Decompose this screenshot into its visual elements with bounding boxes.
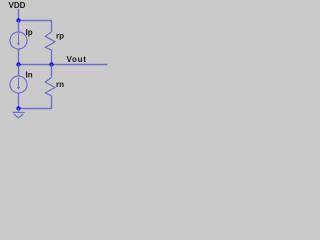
svg-text:rp: rp <box>56 32 64 41</box>
wire In bottom stub <box>18 93 20 109</box>
svg-text:Ip: Ip <box>26 28 33 37</box>
wire rp bottom stub <box>51 50 53 65</box>
svg-text:rn: rn <box>56 80 64 89</box>
junction node VDD <box>16 18 20 22</box>
junction node ground <box>16 106 20 110</box>
background <box>0 0 110 120</box>
junction node Vout-right <box>49 62 53 66</box>
wire VDD stub <box>18 9 20 21</box>
current source In <box>10 76 27 93</box>
wire top rail <box>19 20 53 22</box>
wire rp top stub <box>51 21 53 32</box>
ground <box>13 109 25 118</box>
wire Ip bottom stub <box>18 49 20 65</box>
current source Ip <box>10 32 27 49</box>
svg-text:VDD: VDD <box>9 1 26 10</box>
wire Ip top stub <box>18 21 20 33</box>
svg-text:Vout: Vout <box>67 55 87 64</box>
junction node Vout-left <box>16 62 20 66</box>
wire middle rail / Vout net <box>19 64 108 66</box>
wire bottom rail <box>19 108 53 110</box>
resistor rn <box>45 77 55 95</box>
resistor rp <box>45 32 55 50</box>
svg-text:In: In <box>26 70 33 79</box>
wire In top stub <box>18 65 20 77</box>
wire rn bottom stub <box>51 96 53 109</box>
wire rn top stub <box>51 65 53 78</box>
